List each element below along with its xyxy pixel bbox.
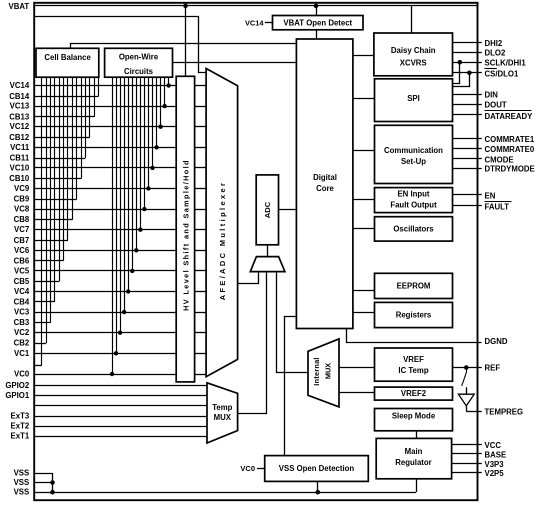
block HV Level Shift and Sample/Hold: [176, 76, 194, 382]
wire Digital Core to SPI: [353, 98, 375, 100]
svg-text:CB14: CB14: [9, 92, 30, 101]
block Cell Balance: [36, 48, 99, 77]
block VSS Open Detection: [265, 456, 369, 482]
wire Internal MUX to VREF: [339, 367, 375, 369]
svg-text:CB9: CB9: [14, 195, 30, 204]
svg-text:BASE: BASE: [485, 450, 507, 459]
wire CS to SPI: [453, 73, 470, 87]
wire Digital Core to EN Input: [353, 199, 375, 201]
wire SCLK to SPI: [453, 63, 460, 84]
svg-text:REF: REF: [485, 364, 501, 373]
wire ADC to selector: [267, 245, 269, 257]
pin COMMRATE1 wire and label: [453, 138, 482, 140]
svg-text:DHI2: DHI2: [485, 39, 503, 48]
svg-text:CS/DLO1: CS/DLO1: [485, 69, 519, 78]
pin SCLK/DHI1 wire and label: [453, 62, 482, 64]
block SPI: [375, 79, 453, 122]
block Internal MUX: [308, 339, 339, 407]
svg-text:Fault Output: Fault Output: [390, 201, 437, 210]
pin DATAREADY wire and label: [453, 114, 482, 116]
svg-text:ExT3: ExT3: [11, 412, 30, 421]
wire Digital Core to EEPROM: [353, 290, 375, 292]
svg-text:DGND: DGND: [485, 337, 508, 346]
svg-text:VC14: VC14: [10, 81, 30, 90]
svg-text:CB7: CB7: [14, 236, 30, 245]
pin COMMRATE0 wire and label: [453, 148, 482, 150]
svg-text:DTRDYMODE: DTRDYMODE: [485, 165, 535, 174]
svg-text:VBAT Open Detect: VBAT Open Detect: [283, 18, 352, 27]
svg-text:CB11: CB11: [10, 154, 30, 163]
svg-text:CB6: CB6: [14, 256, 30, 265]
node CS junction: [467, 71, 472, 76]
svg-text:VSS Open Detection: VSS Open Detection: [279, 464, 355, 473]
svg-text:DLO2: DLO2: [485, 49, 506, 58]
outer chip boundary: [34, 3, 477, 500]
svg-text:VC6: VC6: [14, 246, 30, 255]
wire ADC to Digital Core: [279, 209, 297, 211]
block Temp MUX: [207, 383, 238, 443]
wire VBAT to HV Level Shift: [185, 6, 187, 76]
block Main Regulator: [376, 438, 451, 478]
pin DOUT wire and label: [453, 104, 482, 106]
wire DGND: [347, 329, 482, 343]
pin FAULT wire and label: [453, 205, 482, 207]
svg-text:CB13: CB13: [9, 112, 30, 121]
svg-text:VC2: VC2: [14, 328, 30, 337]
open-wire bus wires and junctions: [168, 77, 170, 85]
svg-text:VREF: VREF: [403, 355, 424, 364]
svg-text:EEPROM: EEPROM: [397, 282, 431, 291]
svg-text:VC7: VC7: [14, 225, 29, 234]
svg-text:V3P3: V3P3: [485, 460, 505, 469]
svg-text:VC13: VC13: [10, 102, 30, 111]
svg-text:Cell Balance: Cell Balance: [44, 53, 91, 62]
svg-text:MUX: MUX: [214, 413, 232, 422]
pin TEMPREG wire and label: [466, 406, 468, 412]
switch to temp regulator: [466, 368, 468, 373]
overline FAULT: [485, 201, 512, 203]
wire AFE mux to selector: [238, 272, 259, 284]
svg-text:SCLK/DHI1: SCLK/DHI1: [485, 59, 527, 68]
wire VC14 stub to VBAT Open Detect: [265, 22, 273, 24]
svg-text:COMMRATE1: COMMRATE1: [485, 135, 535, 144]
svg-text:CB8: CB8: [14, 215, 30, 224]
svg-text:CMODE: CMODE: [485, 155, 514, 164]
wire VBAT rail: [34, 5, 477, 7]
wire Temp MUX to selector: [238, 272, 267, 414]
pin CS/DLO1 wire and label: [453, 72, 482, 74]
block Open-Wire Circuits: [105, 48, 173, 77]
svg-text:CB2: CB2: [14, 339, 30, 348]
block VBAT Open Detect: [273, 16, 364, 30]
pin DTRDYMODE wire and label: [453, 168, 482, 170]
svg-text:VSS: VSS: [14, 488, 30, 497]
svg-text:COMMRATE0: COMMRATE0: [485, 145, 535, 154]
block VREF IC Temp: [375, 348, 453, 381]
svg-text:GPIO1: GPIO1: [5, 391, 29, 400]
svg-text:MUX: MUX: [324, 363, 333, 379]
svg-text:VC3: VC3: [14, 308, 30, 317]
svg-text:VC1: VC1: [14, 349, 30, 358]
pin CMODE wire and label: [453, 158, 482, 160]
wire Sleep Mode to Main Regulator: [416, 431, 418, 439]
svg-text:HV Level Shift and Sample/Hold: HV Level Shift and Sample/Hold: [182, 159, 191, 311]
svg-text:AFE/ADC Multiplexer: AFE/ADC Multiplexer: [218, 181, 227, 301]
wire Digital Core to Registers: [353, 312, 375, 314]
wire Cell Balance to Digital Core: [71, 44, 297, 49]
wire VC0 stub to VSS Open Detection: [257, 468, 265, 470]
svg-text:VC0: VC0: [240, 464, 255, 473]
svg-text:VC9: VC9: [14, 184, 30, 193]
wire Digital Core to Daisy Chain: [353, 55, 374, 57]
svg-text:Temp: Temp: [212, 403, 232, 412]
svg-text:VC4: VC4: [14, 287, 30, 296]
svg-text:ExT1: ExT1: [11, 432, 30, 441]
wire Internal MUX to selector: [277, 272, 309, 373]
svg-text:CB10: CB10: [9, 174, 30, 183]
wire VSS rail: [34, 492, 416, 494]
svg-text:EN Input: EN Input: [397, 190, 429, 199]
block VREF2: [375, 387, 453, 400]
pin DLO2 wire and label: [453, 52, 482, 54]
node REF junction: [464, 365, 469, 370]
svg-text:Core: Core: [316, 184, 334, 193]
wire Internal MUX to VREF2: [339, 392, 375, 394]
svg-text:IC Temp: IC Temp: [398, 366, 428, 375]
svg-text:DIN: DIN: [485, 91, 499, 100]
svg-text:Regulator: Regulator: [395, 458, 431, 467]
pin VC0 wire and label: [34, 374, 176, 376]
wire Digital Core to Oscillators: [353, 228, 375, 230]
svg-text:DOUT: DOUT: [485, 101, 507, 110]
svg-text:VCC: VCC: [485, 441, 502, 450]
pin DIN wire and label: [453, 94, 482, 96]
block Communication Set-Up: [375, 125, 453, 183]
svg-text:TEMPREG: TEMPREG: [485, 407, 524, 416]
svg-text:CB5: CB5: [14, 277, 30, 286]
svg-text:VC11: VC11: [10, 143, 30, 152]
GPIO and ExT pin wires and labels: [34, 385, 207, 387]
pin EN wire and label: [453, 194, 482, 196]
svg-text:ADC: ADC: [263, 201, 272, 218]
overline DATAREADY: [485, 110, 532, 112]
buffer triangle TEMPREG driver: [458, 394, 474, 406]
svg-text:Internal: Internal: [312, 357, 321, 385]
svg-text:VSS: VSS: [14, 478, 30, 487]
svg-text:CB12: CB12: [9, 133, 30, 142]
svg-text:ExT2: ExT2: [11, 422, 30, 431]
wire VSS Open Detection to Digital Core: [285, 317, 297, 456]
overline CS: [485, 68, 497, 70]
svg-text:Registers: Registers: [396, 311, 432, 320]
wire Digital Core to Communication Set-Up: [353, 150, 375, 152]
wire Open-Wire Circuits to Digital Core: [173, 62, 297, 64]
svg-text:Main: Main: [405, 447, 423, 456]
VC14-VC1 pin wires and labels: [34, 85, 176, 87]
buffer input lead: [466, 387, 468, 394]
svg-text:VC5: VC5: [14, 266, 30, 275]
svg-text:GPIO2: GPIO2: [5, 381, 29, 390]
svg-text:Sleep Mode: Sleep Mode: [392, 412, 436, 421]
cell balance bus wires: [98, 77, 100, 96]
block EN Input Fault Output: [375, 188, 453, 213]
wire VBAT Open Detect to Digital Core: [316, 30, 318, 39]
pin DHI2 wire and label: [453, 42, 482, 44]
block Oscillators: [375, 217, 453, 241]
svg-text:Digital: Digital: [313, 173, 337, 182]
pin VSS wires and labels: [34, 473, 52, 475]
pin VCC wire and label: [452, 444, 482, 446]
pin BASE wire and label: [452, 453, 482, 455]
block Registers: [375, 302, 453, 327]
svg-text:CB4: CB4: [14, 297, 30, 306]
svg-text:Set-Up: Set-Up: [401, 157, 426, 166]
wire VBAT to Daisy Chain: [411, 6, 413, 33]
svg-text:FAULT: FAULT: [485, 202, 510, 211]
svg-text:CB3: CB3: [14, 318, 30, 327]
block ADC: [256, 175, 278, 245]
svg-text:SPI: SPI: [407, 94, 420, 103]
block Sleep Mode: [375, 409, 453, 431]
node SCLK junction: [458, 60, 463, 65]
svg-text:VBAT: VBAT: [9, 2, 30, 11]
node VBAT-opendetect junction: [314, 4, 319, 9]
svg-text:V2P5: V2P5: [485, 469, 505, 478]
svg-text:VC10: VC10: [10, 163, 30, 172]
wire Main Regulator to VSS rail: [416, 479, 418, 492]
CB14-CB2 pin wires and labels: [34, 96, 98, 98]
svg-text:EN: EN: [485, 191, 496, 200]
pin REF wire and label: [453, 367, 482, 369]
block EEPROM: [375, 273, 453, 298]
block ADC input selector: [250, 257, 285, 272]
svg-text:Circuits: Circuits: [124, 67, 154, 76]
pin V2P5 wire and label: [452, 472, 482, 474]
block Digital Core: [296, 39, 353, 329]
svg-text:Daisy Chain: Daisy Chain: [391, 46, 436, 55]
pin V3P3 wire and label: [452, 463, 482, 465]
block Daisy Chain XCVRS: [374, 33, 453, 76]
svg-text:VC8: VC8: [14, 205, 30, 214]
wire second rail to AFE mux: [35, 17, 207, 73]
svg-text:VSS: VSS: [14, 469, 30, 478]
svg-text:Open-Wire: Open-Wire: [119, 53, 159, 62]
node VBAT-HV junction: [183, 4, 188, 9]
svg-text:VREF2: VREF2: [401, 389, 427, 398]
svg-text:XCVRS: XCVRS: [400, 59, 427, 68]
wire unlabeled cell balance: [34, 365, 42, 367]
wire VSS Open Detection to VSS rail: [317, 481, 319, 492]
svg-text:VC12: VC12: [10, 122, 30, 131]
block AFE/ADC Multiplexer: [206, 69, 238, 377]
svg-text:VC14: VC14: [245, 18, 264, 27]
svg-text:VC0: VC0: [14, 370, 30, 379]
wire VBAT to VBAT Open Detect: [316, 6, 318, 16]
svg-text:DATAREADY: DATAREADY: [485, 112, 534, 121]
svg-text:Communication: Communication: [384, 146, 443, 155]
svg-text:Oscillators: Oscillators: [393, 225, 434, 234]
